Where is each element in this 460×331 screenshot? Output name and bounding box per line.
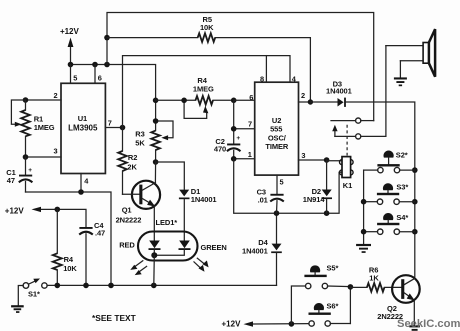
resistor R6 1K (350, 265, 401, 291)
resistor R4 1MEG (pot, top) (184, 76, 234, 118)
resistor R3 5K (pot) (135, 100, 173, 162)
ground (Q2 emitter) (409, 325, 420, 331)
svg-text:S4*: S4* (396, 213, 408, 222)
svg-text:+12V: +12V (60, 27, 80, 36)
relay coil K1 (340, 157, 354, 190)
node pin4 junction (78, 189, 84, 195)
svg-text:1N4001: 1N4001 (242, 247, 268, 256)
svg-text:3: 3 (54, 146, 58, 155)
svg-text:SeekIC.com: SeekIC.com (397, 318, 460, 330)
LED light arrows right (194, 258, 209, 272)
svg-text:.01: .01 (258, 195, 268, 204)
node S3 right junction (412, 199, 418, 205)
wire U1 pin2 (26, 99, 62, 101)
svg-text:S6*: S6* (327, 301, 339, 310)
svg-text:47: 47 (7, 176, 15, 185)
capacitor C1 47 (6, 157, 32, 192)
diode D4 1N4001 (242, 213, 282, 285)
svg-text:RED: RED (119, 240, 135, 249)
svg-text:10K: 10K (63, 264, 77, 273)
diode D1 1N4001 (156, 162, 217, 241)
node D2 bottom junction (324, 210, 330, 216)
relay armature arrow (332, 125, 337, 137)
svg-text:R3: R3 (135, 130, 144, 139)
node C3 bottom junction (274, 210, 280, 216)
svg-text:470: 470 (214, 144, 226, 153)
switch S4 (pushbutton) (364, 213, 415, 234)
ground (speaker) (394, 61, 407, 86)
wire riser to top lines (107, 13, 374, 121)
wire pin5 riser (70, 65, 72, 84)
wire S5 left riser (291, 286, 305, 324)
wire bottom rail (S1 line) (47, 284, 276, 286)
svg-text:S2*: S2* (396, 150, 408, 159)
wire U1 pin7 (105, 127, 122, 129)
IC U1 LM3905 (61, 83, 105, 173)
switch S5 (pushbutton) (304, 264, 350, 289)
switch S2 (pushbutton) (364, 150, 415, 173)
svg-text:7: 7 (248, 120, 252, 129)
svg-text:+12V: +12V (222, 319, 242, 328)
+12V supply label (top left) (60, 27, 80, 65)
svg-text:6: 6 (98, 74, 102, 83)
svg-text:1: 1 (248, 150, 252, 159)
node R5 line junction (104, 35, 110, 41)
svg-text:S1*: S1* (28, 290, 40, 299)
wire S-column right rail (414, 170, 416, 278)
wire U1 pin3 (26, 156, 62, 158)
node R4 bottom (55, 283, 61, 289)
svg-text:5: 5 (73, 73, 77, 82)
relay contact 1 (to +12V top line) (331, 118, 374, 123)
node pin6 junction (92, 62, 98, 68)
svg-text:TIMER: TIMER (265, 142, 289, 151)
wire pin3 to relay coil (327, 160, 342, 162)
wire U2 pin6 line (156, 99, 196, 101)
wire C2 riser / pin7 junction (233, 100, 235, 143)
node pin7 junction (231, 126, 237, 132)
+12V supply label (bottom) (222, 319, 309, 328)
wire U2 pin1 stub (234, 158, 255, 160)
node pin3 junction (324, 157, 330, 163)
capacitor C2 470 (214, 135, 241, 159)
node pin2/R1 junction (23, 97, 29, 103)
node pin3/C1 junction (23, 154, 29, 160)
node pin2/R5 junction (308, 99, 313, 104)
svg-text:LED1*: LED1* (156, 218, 178, 227)
svg-text:2: 2 (301, 91, 305, 100)
svg-text:1MEG: 1MEG (193, 84, 214, 93)
wire U2 pin2 stub (299, 101, 311, 103)
transistor Q1 2N2222 (116, 162, 160, 224)
diode D3 1N4001 (310, 80, 414, 171)
svg-text:10K: 10K (200, 23, 214, 32)
svg-text:555: 555 (270, 124, 282, 133)
svg-text:+: + (236, 135, 240, 142)
svg-text:+: + (28, 167, 32, 174)
wire LED cathode down (153, 255, 156, 285)
+12V supply label (mid left) (5, 206, 58, 215)
node C2 top junction (231, 98, 237, 104)
wire pin6 riser (94, 65, 96, 84)
wire +12V rail y=64.5 (71, 65, 156, 101)
node R4 wiper junction (181, 98, 187, 104)
switch S3 (pushbutton) (364, 182, 415, 204)
wire S-column left rail (363, 170, 365, 244)
svg-text:LM3905: LM3905 (68, 124, 98, 133)
svg-text:7: 7 (108, 118, 112, 127)
LED LED1 bicolor (119, 218, 226, 261)
svg-text:2K: 2K (127, 162, 137, 171)
node pin7 junction (120, 125, 126, 131)
svg-text:R2: R2 (128, 153, 137, 162)
wire Q2 emitter to ground (413, 301, 415, 326)
svg-text:3: 3 (301, 151, 305, 160)
svg-text:2N2222: 2N2222 (116, 215, 142, 224)
LED light arrows left (130, 261, 146, 275)
wire U1 pin4 rail (26, 192, 112, 285)
svg-text:1MEG: 1MEG (34, 123, 55, 132)
svg-text:Q1: Q1 (122, 206, 132, 215)
switch S1 (23, 279, 47, 299)
wire pin6 stub (234, 99, 255, 101)
svg-text:5: 5 (280, 178, 284, 187)
node S3 left junction (361, 199, 367, 205)
node R6 left junction (348, 284, 354, 290)
node S5 riser bottom (289, 321, 295, 327)
node C4 bottom (83, 283, 89, 289)
node R3 bottom / D1 branch (153, 159, 159, 165)
svg-text:8: 8 (260, 75, 264, 84)
svg-text:5K: 5K (135, 139, 145, 148)
resistor R5 10K (107, 15, 310, 102)
svg-text:1K: 1K (369, 274, 379, 283)
node pin4 riser bottom (108, 283, 114, 289)
wire Q1 emitter to LED (153, 206, 155, 241)
svg-text:+12V: +12V (5, 206, 25, 215)
LED green element (154, 241, 190, 256)
wire +12V to C4 (57, 209, 86, 227)
node S2 right junction (412, 167, 418, 173)
resistor R1 1MEG (pot) (11, 100, 54, 157)
switch S6 (pushbutton) (309, 301, 351, 326)
node R3 wiper (153, 118, 159, 124)
transistor Q2 2N2222 (377, 275, 419, 321)
svg-text:U1: U1 (78, 114, 87, 123)
ground (below S1) (11, 286, 24, 313)
svg-text:S3*: S3* (396, 182, 408, 191)
resistor R4 10K (53, 209, 78, 285)
node R4 top junction (55, 207, 61, 213)
diode D2 1N914 (303, 160, 332, 213)
capacitor C3 .01 (257, 187, 284, 213)
wire U2 pin8 riser (265, 56, 267, 83)
wire U2 pin5 stub (276, 175, 278, 194)
wire S6 right riser (349, 287, 351, 324)
svg-text:6: 6 (249, 93, 253, 102)
svg-text:2: 2 (54, 91, 58, 100)
node LED common cathode (151, 252, 157, 258)
capacitor C4 .47 (79, 221, 105, 286)
svg-text:.47: .47 (95, 228, 105, 237)
svg-text:1N4001: 1N4001 (326, 86, 352, 95)
wire relay mechanical link (dashed) (346, 125, 348, 156)
node pin1 junction (231, 156, 237, 162)
ground (S-column) (356, 244, 371, 253)
svg-text:*SEE TEXT: *SEE TEXT (92, 313, 137, 323)
node LED cathode junction (151, 283, 157, 289)
relay contact 2 (to speaker) (335, 46, 386, 139)
wire pin7 riser to 555 supply (123, 56, 291, 128)
node S4 left junction (361, 229, 367, 235)
timer U2 555 (255, 75, 299, 176)
speaker SPKR (386, 29, 435, 77)
node pin5 junction (68, 62, 74, 68)
node R3 top (153, 98, 159, 104)
wire U2 pin7 stub (234, 128, 255, 130)
svg-text:K1: K1 (343, 181, 352, 190)
svg-text:GREEN: GREEN (201, 243, 227, 252)
wire pin1 down-link (234, 159, 342, 213)
resistor R2 2K (118, 128, 137, 195)
LED red element (149, 241, 161, 256)
node S4 right junction (412, 229, 418, 235)
node riser junction (104, 62, 110, 68)
svg-text:1N4001: 1N4001 (191, 195, 217, 204)
svg-text:R4: R4 (64, 255, 74, 264)
svg-text:1N914: 1N914 (303, 195, 326, 204)
wire U2 pin3 stub (299, 159, 327, 161)
svg-text:S5*: S5* (327, 264, 339, 273)
